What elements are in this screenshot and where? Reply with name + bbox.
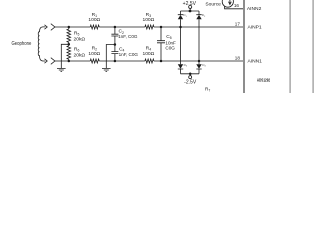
op-amp/ADC U1 ADS1292 left edge [243, 0, 245, 93]
svg-text:100Ω: 100Ω [142, 17, 154, 23]
svg-text:-2.5V: -2.5V [184, 80, 197, 86]
node junction (189.8,11) [189, 10, 192, 13]
ground (C2/C4 midpoint) [102, 69, 111, 72]
geophone bottom lead arrow [43, 59, 48, 63]
svg-text:AINN1: AINN1 [248, 59, 263, 65]
wire -2.5V bar [181, 73, 200, 75]
resistor R4 [142, 46, 154, 64]
wire source to AINN2 pin 16 [225, 6, 244, 9]
capacitor C2 [111, 27, 138, 45]
node junction (68.8,27) [68, 26, 71, 29]
svg-text:16: 16 [234, 3, 240, 8]
diode D3 (-2.5V to AINP1 line) [178, 27, 188, 74]
wire top rail (AINP1 line) [55, 26, 244, 28]
+2.5V supply [183, 1, 197, 12]
wire bottom rail (AINN1 line) [55, 60, 244, 62]
svg-text:C0G: C0G [165, 46, 175, 51]
svg-text:100Ω: 100Ω [142, 51, 154, 57]
current source (Source) [205, 0, 233, 8]
node junction (114.9,27) [114, 26, 117, 29]
connector chevron bottom [51, 58, 55, 65]
resistor R5 [67, 27, 85, 44]
svg-text:20kΩ: 20kΩ [74, 36, 86, 42]
diode D4 (-2.5V to AINN1 line) [196, 61, 206, 74]
svg-text:17: 17 [235, 22, 241, 27]
svg-text:1nF, C0G: 1nF, C0G [119, 52, 139, 57]
connector chevron top [51, 24, 55, 31]
svg-text:1nF, C0G: 1nF, C0G [118, 34, 138, 39]
ADS1292 internal block lines [289, 0, 290, 93]
svg-text:20kΩ: 20kΩ [74, 52, 86, 58]
svg-text:AINP1: AINP1 [248, 25, 262, 31]
diode D2 (AINN1 line to +2.5V) [196, 11, 206, 61]
svg-text:Geophone: Geophone [12, 41, 32, 47]
node junction (114.9,44.5) [114, 43, 117, 46]
svg-text:ADS1292: ADS1292 [257, 78, 270, 83]
svg-text:100Ω: 100Ω [88, 51, 100, 57]
svg-text:+2.5V: +2.5V [183, 1, 197, 7]
svg-text:Source: Source [205, 2, 221, 8]
svg-text:AINN2: AINN2 [247, 6, 262, 12]
svg-text:18: 18 [235, 56, 241, 61]
resistor R6 [67, 44, 85, 61]
-2.5V supply [184, 73, 197, 86]
wire C2/C4 midpoint to ground [106, 45, 115, 69]
node junction (161,61) [160, 60, 163, 63]
ground (R5/R6 midpoint) [57, 69, 66, 72]
node junction (114.9,61) [114, 60, 117, 63]
node junction (161,27) [160, 26, 163, 29]
wire +2.5V bar [181, 10, 200, 12]
node junction (68.8,44.3) [68, 43, 71, 46]
capacitor C4 [111, 45, 138, 62]
node junction (199,61) [198, 60, 201, 63]
resistor R2 [88, 46, 100, 64]
geophone top lead arrow [43, 25, 48, 29]
node junction (68.8,61) [68, 60, 71, 63]
capacitor C5 [157, 27, 176, 61]
diode D1 (AINP1 line to +2.5V) [178, 11, 188, 27]
geophone coil [38, 27, 43, 61]
svg-text:100Ω: 100Ω [88, 17, 100, 23]
resistor R3 [142, 12, 154, 29]
node junction (180.5,27) [179, 26, 182, 29]
wire R5/R6 midpoint to ground [61, 44, 69, 68]
resistor R1 [88, 12, 100, 29]
